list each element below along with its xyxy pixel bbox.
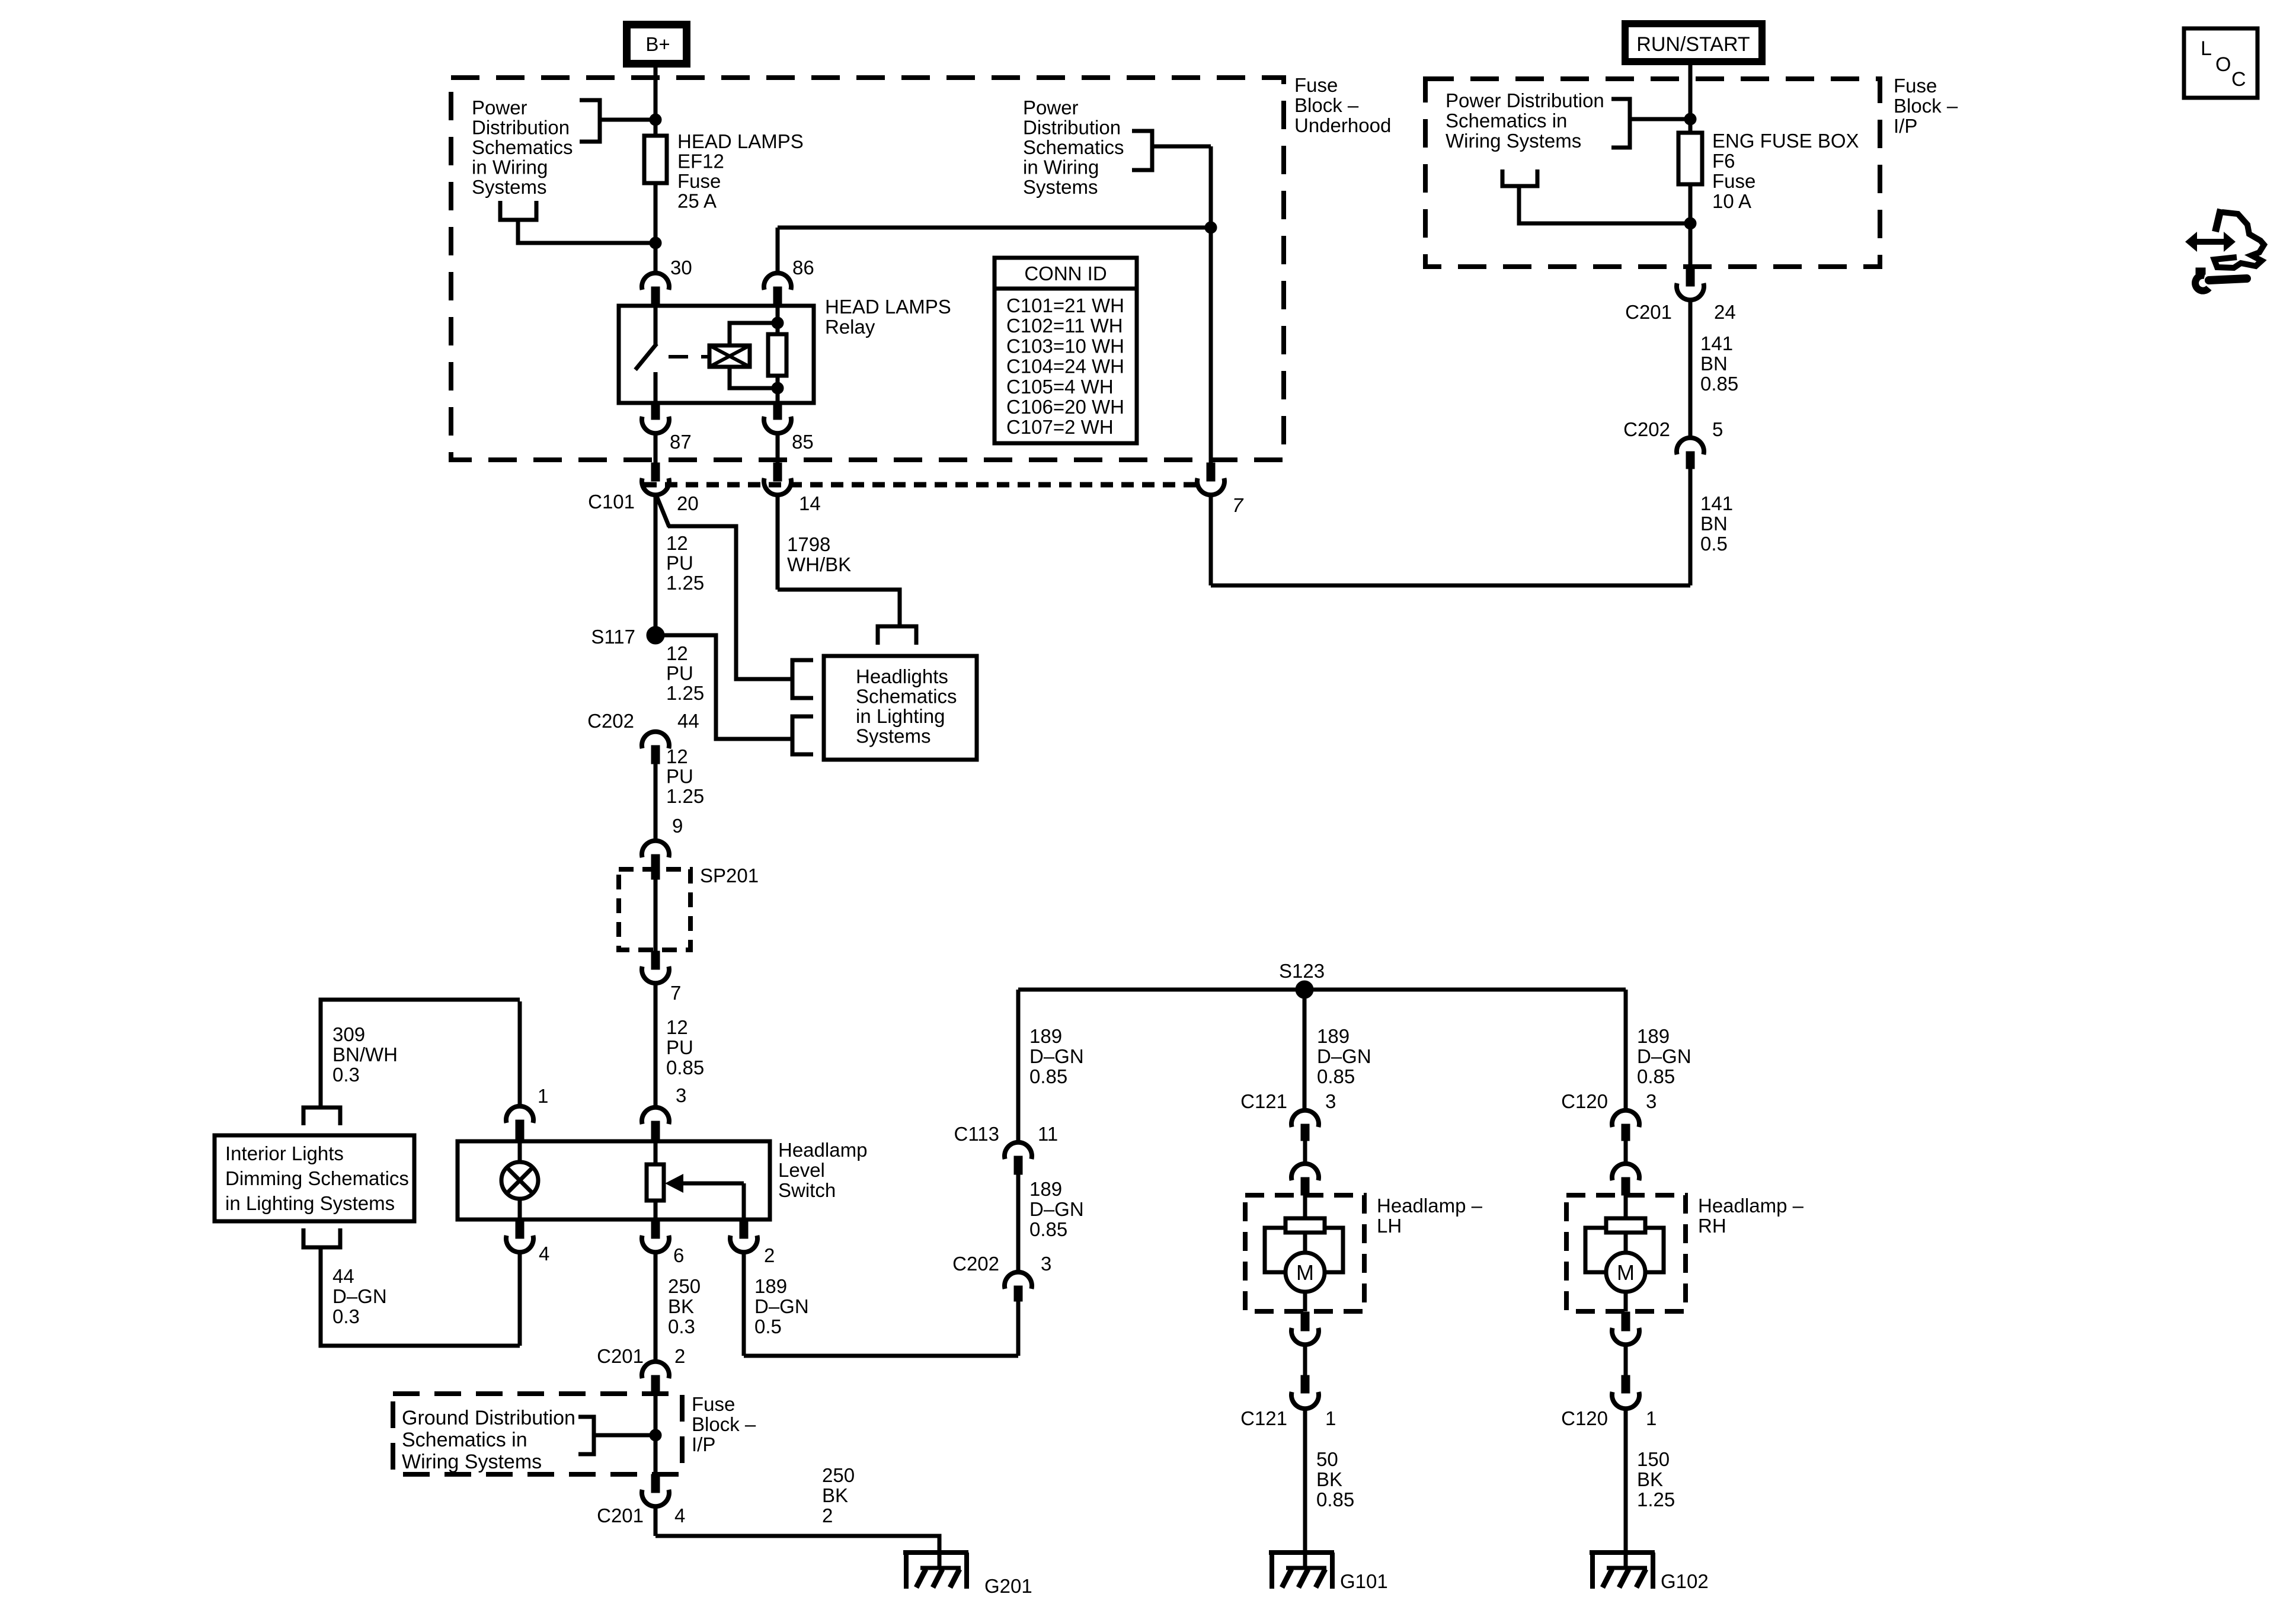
bracket above interior lights box: [303, 1108, 340, 1125]
svg-text:Schematics: Schematics: [856, 686, 957, 708]
wire 189 D-GN from pin 2: [744, 1252, 1018, 1356]
svg-text:Switch: Switch: [778, 1179, 836, 1201]
label Headlamp Level Switch: [778, 1139, 867, 1201]
svg-text:0.5: 0.5: [1700, 533, 1728, 555]
label 141 BN 0.85: [1700, 332, 1738, 395]
connector LH headlamp socket bottom: [1291, 1312, 1319, 1345]
junction dot ground block: [650, 1429, 661, 1441]
label 189 D-GN 0.85 (middle): [1317, 1025, 1371, 1087]
headlights schematics box: [824, 656, 977, 760]
connector pin 2 switch: [730, 1219, 775, 1266]
wire 250 BK from pin 6: [654, 1252, 658, 1362]
svg-text:Dimming Schematics: Dimming Schematics: [225, 1167, 409, 1189]
connector LH headlamp socket top: [1291, 1164, 1319, 1195]
junction dot at B+ feed: [650, 114, 661, 126]
junction dot below fuse: [650, 237, 661, 249]
svg-text:Power: Power: [1023, 97, 1079, 119]
bracket headlights box lower left: [792, 716, 813, 754]
connector C121 pin 1: [1240, 1375, 1336, 1429]
svg-text:86: 86: [792, 257, 814, 279]
bracket power distribution (I/P): [1611, 99, 1690, 148]
connector C101 pin 14: [764, 463, 821, 514]
svg-text:189: 189: [1029, 1025, 1062, 1047]
svg-text:Level: Level: [778, 1159, 825, 1181]
svg-text:141: 141: [1700, 492, 1733, 514]
svg-text:Distribution: Distribution: [472, 117, 570, 139]
bracket under I/P note: [1502, 169, 1690, 223]
wire S123 to LH headlamp: [1303, 990, 1307, 1110]
svg-text:C202: C202: [587, 710, 634, 732]
label 150 BK 1.25: [1637, 1448, 1675, 1510]
svg-text:PU: PU: [666, 552, 693, 574]
label Headlamp - LH: [1377, 1195, 1483, 1237]
wire 309 BN/WH loop: [321, 1000, 520, 1108]
relay switch contact: [635, 306, 657, 403]
LH internal band: [1265, 1228, 1343, 1272]
svg-text:Schematics: Schematics: [1023, 136, 1124, 158]
RH internal band: [1585, 1228, 1664, 1272]
location icon wrench: [2195, 268, 2247, 291]
wire C202-3 down: [1016, 1301, 1021, 1356]
svg-text:BN/WH: BN/WH: [332, 1044, 398, 1065]
wire 141 BN 0.5 horizontal: [1211, 584, 1690, 588]
svg-text:C113: C113: [954, 1123, 999, 1145]
svg-text:D–GN: D–GN: [1637, 1045, 1691, 1067]
svg-text:Block –: Block –: [1894, 95, 1958, 117]
label Ground Distribution Schematics: [402, 1407, 575, 1473]
splice S117: [591, 626, 664, 648]
svg-text:1.25: 1.25: [1637, 1489, 1675, 1510]
svg-text:WH/BK: WH/BK: [787, 553, 851, 575]
svg-text:44: 44: [677, 710, 699, 732]
connector C202 pin 44: [587, 710, 699, 764]
svg-text:12: 12: [666, 1016, 688, 1038]
wire 141 BN 0.5: [1689, 469, 1693, 585]
bracket into headlights box top: [878, 626, 916, 645]
wire LH socket to C121-1: [1303, 1345, 1307, 1377]
ground G201: [903, 1553, 1032, 1597]
RH internal resistor: [1606, 1195, 1645, 1233]
svg-text:CONN ID: CONN ID: [1024, 263, 1107, 284]
svg-text:309: 309: [332, 1023, 365, 1045]
svg-text:S117: S117: [591, 626, 635, 648]
svg-text:Ground Distribution: Ground Distribution: [402, 1407, 575, 1429]
connector C120 pin 3: [1561, 1090, 1657, 1141]
svg-text:HEAD LAMPS: HEAD LAMPS: [825, 296, 951, 318]
svg-text:O: O: [2215, 53, 2231, 76]
svg-text:C202: C202: [1623, 418, 1670, 440]
svg-text:14: 14: [799, 492, 821, 514]
connector pin 1 switch: [506, 1085, 548, 1140]
wire through SP201: [654, 879, 658, 952]
svg-text:Schematics: Schematics: [472, 136, 573, 158]
svg-text:G201: G201: [984, 1575, 1032, 1597]
wire S123 to C113: [1016, 990, 1021, 1142]
svg-text:BN: BN: [1700, 353, 1728, 375]
junction dot coil top: [772, 317, 784, 329]
label Headlamp - RH: [1698, 1195, 1804, 1237]
svg-text:Relay: Relay: [825, 316, 875, 338]
svg-text:PU: PU: [666, 766, 693, 788]
wire 150 BK to G102: [1624, 1409, 1628, 1553]
fuse F6 ENG FUSE BOX 10A: [1678, 133, 1702, 267]
svg-text:Headlamp: Headlamp: [778, 1139, 867, 1161]
svg-text:C103=10 WH: C103=10 WH: [1006, 335, 1124, 357]
LH internal resistor: [1285, 1195, 1325, 1233]
svg-text:10 A: 10 A: [1712, 190, 1751, 212]
svg-text:Fuse: Fuse: [677, 170, 721, 192]
svg-text:189: 189: [1029, 1178, 1062, 1200]
svg-text:4: 4: [674, 1505, 685, 1526]
svg-text:1: 1: [538, 1085, 548, 1107]
svg-text:12: 12: [666, 532, 688, 554]
svg-text:C107=2 WH: C107=2 WH: [1006, 416, 1114, 438]
wire SP201 to switch: [654, 983, 658, 1108]
wire 141 BN 0.85: [1689, 300, 1693, 438]
svg-text:Headlights: Headlights: [856, 665, 948, 687]
svg-text:150: 150: [1637, 1448, 1670, 1470]
splice S123: [1279, 960, 1325, 998]
svg-text:S123: S123: [1279, 960, 1325, 982]
svg-text:141: 141: [1700, 332, 1733, 354]
junction dot F6 top: [1684, 113, 1696, 125]
label Headlights Schematics in Lighting Systems: [856, 665, 957, 747]
svg-text:Fuse: Fuse: [1294, 74, 1338, 96]
svg-text:D–GN: D–GN: [1029, 1198, 1084, 1220]
svg-text:Block –: Block –: [692, 1413, 756, 1435]
bracket headlights box upper left: [792, 660, 813, 698]
connector C201 pin 2: [597, 1345, 685, 1394]
svg-text:EF12: EF12: [677, 151, 724, 172]
svg-text:C101: C101: [588, 491, 635, 513]
wire down to pin 7: [1209, 146, 1213, 463]
fuse block I/P dashed box: [1425, 79, 1880, 267]
svg-text:12: 12: [666, 642, 688, 664]
location icon double arrow: [2185, 232, 2236, 252]
label 12 PU 1.25 (upper): [666, 532, 704, 594]
wire S123 bus: [1018, 988, 1626, 992]
svg-text:HEAD LAMPS: HEAD LAMPS: [677, 130, 804, 152]
svg-text:I/P: I/P: [692, 1433, 715, 1455]
branch S117 to headlights box lower: [655, 635, 792, 739]
svg-text:L: L: [2201, 37, 2212, 60]
label Fuse Block - I/P: [1894, 75, 1958, 137]
connector pin 3 headlamp level switch: [642, 1084, 686, 1141]
svg-text:Power: Power: [472, 97, 527, 119]
wire C202-44 down: [654, 764, 658, 840]
svg-text:C105=4 WH: C105=4 WH: [1006, 376, 1114, 398]
connector pin 7 underhood: [1197, 463, 1244, 516]
svg-text:1.25: 1.25: [666, 682, 704, 704]
svg-text:C202: C202: [952, 1253, 999, 1275]
svg-text:D–GN: D–GN: [754, 1295, 809, 1317]
svg-text:Fuse: Fuse: [692, 1393, 735, 1415]
label 309 BN/WH 0.3: [332, 1023, 398, 1086]
wire RH socket to C120-1: [1624, 1345, 1628, 1377]
svg-text:Power Distribution: Power Distribution: [1446, 89, 1604, 111]
lamp symbol in switch: [501, 1141, 538, 1219]
label 12 PU 0.85: [666, 1016, 704, 1078]
svg-text:Wiring Systems: Wiring Systems: [402, 1451, 542, 1473]
svg-text:RH: RH: [1698, 1215, 1726, 1237]
svg-text:Schematics in: Schematics in: [1446, 110, 1567, 132]
connector C202 pin 3: [952, 1253, 1051, 1301]
wire RUN/START down: [1689, 62, 1693, 136]
svg-text:50: 50: [1316, 1448, 1338, 1470]
svg-text:BK: BK: [1637, 1468, 1663, 1490]
svg-text:0.85: 0.85: [1317, 1065, 1355, 1087]
svg-text:B+: B+: [645, 33, 670, 55]
svg-text:Distribution: Distribution: [1023, 117, 1121, 139]
wire from pin7 to relay coil feed: [778, 226, 1211, 230]
RH motor: [1606, 1233, 1645, 1311]
svg-text:2: 2: [674, 1345, 685, 1367]
svg-text:1.25: 1.25: [666, 785, 704, 807]
connector C113 pin 11: [954, 1123, 1059, 1174]
svg-text:20: 20: [677, 492, 699, 514]
interior lights dimming box: [215, 1135, 414, 1221]
wire C121-3 to socket: [1303, 1141, 1307, 1164]
svg-text:Underhood: Underhood: [1294, 114, 1391, 136]
connector pin 4 switch: [506, 1219, 549, 1265]
svg-text:SP201: SP201: [700, 865, 759, 886]
svg-text:C121: C121: [1240, 1407, 1287, 1429]
svg-text:BK: BK: [822, 1484, 848, 1506]
svg-text:Systems: Systems: [472, 176, 547, 198]
svg-text:Fuse: Fuse: [1894, 75, 1937, 97]
headlamp level switch box: [458, 1141, 770, 1219]
svg-text:RUN/START: RUN/START: [1636, 33, 1750, 56]
svg-text:250: 250: [668, 1275, 701, 1297]
connector pin 85 of relay: [764, 401, 814, 453]
svg-text:C: C: [2231, 68, 2246, 91]
wire 250 BK 2 to G201: [655, 1506, 939, 1553]
bracket to power distribution note (right): [1132, 131, 1211, 170]
svg-text:PU: PU: [666, 662, 693, 684]
headlamp LH dashed box: [1245, 1195, 1364, 1311]
svg-text:189: 189: [1637, 1025, 1670, 1047]
wire to pin 86: [776, 228, 780, 273]
svg-text:189: 189: [1317, 1025, 1350, 1047]
junction dot coil feed: [1205, 222, 1217, 233]
svg-text:0.3: 0.3: [332, 1064, 360, 1086]
svg-text:30: 30: [670, 257, 692, 279]
svg-text:C101=21 WH: C101=21 WH: [1006, 295, 1124, 316]
svg-text:C104=24 WH: C104=24 WH: [1006, 356, 1124, 377]
wire 44 D-GN loop: [321, 1247, 520, 1346]
svg-text:3: 3: [1041, 1253, 1051, 1275]
relay internal resistor: [768, 334, 786, 376]
svg-text:G101: G101: [1340, 1570, 1388, 1592]
svg-text:C201: C201: [597, 1505, 644, 1526]
svg-text:0.85: 0.85: [1637, 1065, 1675, 1087]
label 50 BK 0.85: [1316, 1448, 1354, 1510]
bracket ground distribution: [578, 1417, 655, 1454]
power terminal B+ box: [627, 25, 687, 64]
svg-text:in Wiring: in Wiring: [1023, 156, 1099, 178]
svg-text:4: 4: [539, 1243, 549, 1265]
connector plane C101 dotted line: [644, 482, 1197, 488]
svg-text:Interior Lights: Interior Lights: [225, 1142, 344, 1164]
wire 50 BK to G101: [1303, 1409, 1307, 1553]
svg-text:LH: LH: [1377, 1215, 1402, 1237]
wire pin85 to C101: [776, 433, 780, 463]
svg-text:0.5: 0.5: [754, 1315, 782, 1337]
connector C121 pin 3: [1240, 1090, 1336, 1141]
label 12 PU 1.25 (below S117): [666, 642, 704, 704]
svg-text:6: 6: [673, 1244, 684, 1266]
svg-text:Wiring Systems: Wiring Systems: [1446, 130, 1581, 152]
label Fuse Block - Underhood: [1294, 74, 1391, 136]
wire pin87 to C101: [654, 433, 658, 463]
svg-text:C106=20 WH: C106=20 WH: [1006, 396, 1124, 418]
relay pin86 internal wire: [776, 306, 780, 334]
svg-text:1: 1: [1646, 1407, 1657, 1429]
junction dot F6 bottom: [1684, 217, 1696, 229]
svg-text:C201: C201: [597, 1345, 644, 1367]
connector C201 pin 24: [1625, 267, 1736, 323]
svg-text:Systems: Systems: [856, 725, 931, 747]
label 44 D-GN 0.3: [332, 1265, 387, 1327]
svg-text:0.3: 0.3: [332, 1305, 360, 1327]
svg-text:C121: C121: [1240, 1090, 1287, 1112]
label 1798 WH/BK: [787, 533, 851, 575]
svg-text:7: 7: [670, 982, 681, 1004]
label 250 BK 2: [822, 1464, 855, 1526]
svg-text:BN: BN: [1700, 513, 1728, 534]
LH motor: [1285, 1233, 1325, 1311]
connector pin 87 of relay: [642, 401, 692, 453]
svg-text:12: 12: [666, 745, 688, 767]
svg-text:C201: C201: [1625, 301, 1672, 323]
svg-text:ENG FUSE BOX: ENG FUSE BOX: [1712, 130, 1859, 152]
relay coil top lead: [730, 323, 778, 345]
svg-text:3: 3: [1646, 1090, 1657, 1112]
wire 1798 WH/BK from C101-14: [778, 495, 900, 626]
svg-text:25 A: 25 A: [677, 190, 717, 212]
svg-text:M: M: [1617, 1260, 1635, 1285]
svg-text:BK: BK: [668, 1295, 694, 1317]
wire C113 to C202: [1016, 1174, 1021, 1272]
svg-text:7: 7: [1232, 494, 1244, 516]
wire through ground block: [654, 1394, 658, 1474]
relay resistor lower wire: [776, 376, 780, 403]
wire C120-3 to socket: [1624, 1141, 1628, 1164]
label 189 D-GN 0.5: [754, 1275, 809, 1337]
svg-text:2: 2: [822, 1505, 833, 1526]
svg-text:D–GN: D–GN: [1029, 1045, 1084, 1067]
svg-text:Headlamp –: Headlamp –: [1377, 1195, 1483, 1217]
label 189 D-GN 0.85 (right): [1637, 1025, 1691, 1087]
svg-text:D–GN: D–GN: [332, 1285, 387, 1307]
svg-text:Systems: Systems: [1023, 176, 1098, 198]
note power distribution schematics (left): [472, 97, 573, 198]
svg-text:I/P: I/P: [1894, 115, 1917, 137]
relay coil symbol: [709, 345, 750, 367]
svg-text:Block –: Block –: [1294, 94, 1359, 116]
relay box HEAD LAMPS: [619, 306, 814, 403]
connector pin 86 of relay: [764, 257, 814, 305]
label Fuse Block - I/P (ground): [692, 1393, 756, 1455]
note power distribution schematics (I/P): [1446, 89, 1604, 152]
svg-text:3: 3: [1325, 1090, 1336, 1112]
connector C101 pin 20: [588, 463, 699, 514]
svg-text:in Lighting Systems: in Lighting Systems: [225, 1192, 395, 1214]
svg-text:PU: PU: [666, 1036, 693, 1058]
power terminal RUN/START box: [1625, 24, 1762, 62]
ground G102: [1590, 1553, 1709, 1592]
ground distribution dashed box: [393, 1394, 682, 1474]
wire B+ down to fuse: [654, 68, 658, 136]
svg-text:0.85: 0.85: [1029, 1218, 1067, 1240]
connector pin 9 splice pack: [642, 815, 683, 879]
splice pack SP201 dashed box: [619, 865, 759, 950]
wire pin 7 down: [1209, 495, 1213, 585]
label 141 BN 0.5: [1700, 492, 1733, 555]
svg-text:11: 11: [1038, 1123, 1058, 1145]
branch wire from C101-20 to headlights box upper: [656, 495, 792, 679]
svg-text:in Lighting: in Lighting: [856, 705, 945, 727]
svg-text:Headlamp –: Headlamp –: [1698, 1195, 1804, 1217]
svg-text:1798: 1798: [787, 533, 830, 555]
svg-text:189: 189: [754, 1275, 787, 1297]
svg-text:3: 3: [676, 1084, 686, 1106]
fuse EF12 HEAD LAMPS 25A: [644, 136, 667, 274]
svg-text:9: 9: [672, 815, 683, 837]
svg-text:C102=11 WH: C102=11 WH: [1006, 315, 1123, 337]
headlamp RH dashed box: [1566, 1195, 1686, 1311]
connector C120 pin 1: [1561, 1375, 1657, 1429]
wire S123 to RH headlamp: [1624, 990, 1628, 1110]
connector RH headlamp socket bottom: [1612, 1312, 1639, 1345]
svg-text:85: 85: [792, 431, 814, 453]
svg-text:in Wiring: in Wiring: [472, 156, 548, 178]
svg-text:0.85: 0.85: [666, 1057, 704, 1078]
note power distribution schematics (right): [1023, 97, 1124, 198]
CONN ID table: [994, 258, 1137, 443]
svg-text:0.3: 0.3: [668, 1315, 695, 1337]
svg-text:250: 250: [822, 1464, 855, 1486]
LOC reference box: [2184, 28, 2257, 98]
label 189 D-GN 0.85 (left): [1029, 1025, 1084, 1087]
label 250 BK 0.3: [668, 1275, 701, 1337]
connector C202 pin 5: [1623, 418, 1723, 469]
svg-text:M: M: [1296, 1260, 1314, 1285]
svg-text:0.85: 0.85: [1029, 1065, 1067, 1087]
svg-text:C120: C120: [1561, 1090, 1608, 1112]
connector pin 7 splice pack exit: [642, 951, 681, 1004]
svg-text:F6: F6: [1712, 150, 1735, 172]
label 189 D-GN 0.85 (left lower): [1029, 1178, 1084, 1240]
label Interior Lights Dimming Schematics: [225, 1142, 409, 1214]
wire C101-20 to S117: [654, 495, 658, 626]
svg-text:0.85: 0.85: [1700, 373, 1738, 395]
connector pin 6 switch: [642, 1219, 684, 1266]
svg-text:D–GN: D–GN: [1317, 1045, 1371, 1067]
label ENG FUSE BOX F6 Fuse 10A: [1712, 130, 1859, 212]
bracket to power distribution note (left): [580, 100, 655, 142]
connector RH headlamp socket top: [1612, 1164, 1639, 1195]
svg-text:Schematics in: Schematics in: [402, 1429, 527, 1451]
relay coil bottom lead: [730, 367, 778, 388]
svg-text:1: 1: [1325, 1407, 1336, 1429]
svg-text:0.85: 0.85: [1316, 1489, 1354, 1510]
location icon part outline: [2214, 209, 2264, 268]
label HEAD LAMPS Relay: [825, 296, 951, 338]
fuse block underhood dashed box: [451, 78, 1284, 460]
svg-text:2: 2: [764, 1244, 775, 1266]
svg-text:BK: BK: [1316, 1468, 1342, 1490]
